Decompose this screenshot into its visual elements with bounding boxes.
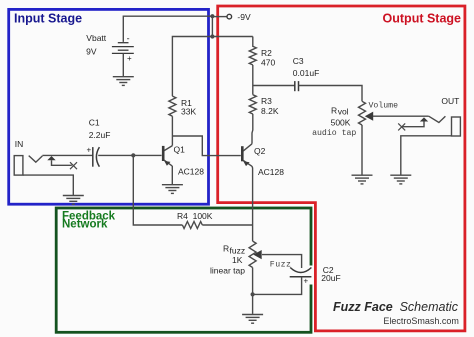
svg-text:+: + <box>304 276 309 285</box>
title Fuzz Face Schematic <box>333 300 459 326</box>
junction dot top rail <box>210 14 214 18</box>
svg-text:0.01uF: 0.01uF <box>293 68 319 78</box>
svg-text:Network: Network <box>62 219 108 231</box>
wire output jack sleeve to ground <box>401 136 452 175</box>
svg-text:R: R <box>223 243 229 253</box>
ground Q1 emitter <box>162 185 183 194</box>
wire R1 top rail <box>172 37 252 97</box>
wire Rfuzz bottom to ground <box>252 268 254 314</box>
transistor Q1 <box>163 145 204 177</box>
svg-text:-9V: -9V <box>237 12 251 22</box>
white gap in green border where C2 crosses <box>307 266 314 285</box>
wire C3 to Rvol top <box>299 86 363 102</box>
wire R4 to Q2 emitter line <box>202 224 252 226</box>
svg-text:100K: 100K <box>193 211 213 221</box>
feedback network box <box>56 208 311 332</box>
capacitor C3 <box>293 56 319 91</box>
svg-text:-: - <box>127 34 130 44</box>
input jack switch contact <box>47 156 77 169</box>
svg-text:9V: 9V <box>86 46 97 56</box>
svg-text:Vbatt: Vbatt <box>86 33 106 43</box>
node -9V terminal <box>227 12 251 22</box>
wire Q2 emitter down to Rfuzz <box>251 166 254 241</box>
svg-text:C1: C1 <box>89 118 100 128</box>
svg-text:Input Stage: Input Stage <box>14 12 82 26</box>
svg-text:R4: R4 <box>177 211 188 221</box>
svg-text:+: + <box>127 54 132 63</box>
wire R3 bottom to Q2 collector <box>251 114 254 144</box>
resistor R4 <box>177 211 213 229</box>
svg-text:linear tap: linear tap <box>210 266 245 276</box>
svg-text:+: + <box>87 145 92 154</box>
svg-text:AC128: AC128 <box>258 167 284 177</box>
ground Rvol <box>352 175 373 184</box>
svg-text:OUT: OUT <box>441 96 459 106</box>
svg-text:Output Stage: Output Stage <box>383 12 462 26</box>
wire input jack tip to C1 <box>42 154 92 156</box>
svg-text:ElectroSmash.com: ElectroSmash.com <box>383 316 459 326</box>
wire R2 bottom to R3 top <box>252 65 254 95</box>
svg-text:R: R <box>331 106 337 116</box>
svg-text:IN: IN <box>15 139 23 149</box>
ground output jack <box>390 175 411 184</box>
wire C2 bottom to ground junction <box>253 277 302 295</box>
svg-text:AC128: AC128 <box>178 167 204 177</box>
potentiometer Rvol <box>312 101 398 139</box>
svg-text:Fuzz Face: Fuzz Face <box>333 300 393 314</box>
svg-text:8.2K: 8.2K <box>261 106 279 116</box>
wire input jack sleeve to ground <box>23 175 73 195</box>
wire battery top to -9V junction <box>123 16 212 42</box>
junction dot feedback node <box>131 153 135 157</box>
wire R2/R3 tee to C3 <box>253 85 295 87</box>
ground battery <box>113 77 134 86</box>
transistor Q2 <box>242 144 284 177</box>
svg-text:1K: 1K <box>232 255 243 265</box>
svg-text:vol: vol <box>338 107 349 117</box>
svg-text:C3: C3 <box>293 56 304 66</box>
capacitor C1 <box>87 118 111 167</box>
svg-text:500K: 500K <box>331 118 351 128</box>
wire C1 to Q1 base <box>98 154 161 156</box>
ground Rfuzz <box>242 315 263 324</box>
wire junction column <box>211 16 213 36</box>
svg-text:R3: R3 <box>261 96 272 106</box>
potentiometer Rfuzz <box>210 241 291 275</box>
wire battery bottom <box>122 53 124 76</box>
junction dot second rail <box>210 34 214 38</box>
output jack switch contact <box>398 117 428 130</box>
svg-text:Schematic: Schematic <box>400 300 459 314</box>
resistor R2 <box>249 37 275 68</box>
svg-text:Volume: Volume <box>369 101 399 111</box>
output stage box <box>218 6 465 331</box>
input stage box <box>9 9 209 204</box>
capacitor C2 <box>290 265 341 285</box>
junction dot Rfuzz/C2 ground node <box>251 292 255 296</box>
wire feedback from Q1 base junction to R4 <box>133 155 182 225</box>
svg-text:470: 470 <box>261 57 275 67</box>
svg-text:audio tap: audio tap <box>312 128 356 138</box>
input jack IN <box>14 139 42 175</box>
wire R1 bottom to Q1 collector node <box>171 116 173 145</box>
svg-text:Q2: Q2 <box>254 146 266 156</box>
wire Rvol bottom <box>361 125 363 175</box>
wire stub to -9V terminal <box>212 16 226 18</box>
battery Vbatt <box>86 33 134 63</box>
svg-text:20uF: 20uF <box>321 273 340 283</box>
wire Q1 emitter to ground <box>171 166 173 185</box>
resistor R1 <box>169 96 197 117</box>
resistor R3 <box>249 95 279 116</box>
svg-text:33K: 33K <box>181 107 196 117</box>
wire Q1 collector to Q2 base <box>172 136 240 156</box>
wire Rvol wiper to output jack <box>373 115 429 117</box>
svg-text:fuzz: fuzz <box>230 245 246 255</box>
svg-text:2.2uF: 2.2uF <box>89 130 111 140</box>
output jack OUT <box>429 96 461 136</box>
wire Rfuzz wiper to C2 top <box>262 255 302 268</box>
svg-text:Fuzz: Fuzz <box>270 261 292 270</box>
svg-text:Q1: Q1 <box>174 145 186 155</box>
ground input jack <box>63 196 84 205</box>
